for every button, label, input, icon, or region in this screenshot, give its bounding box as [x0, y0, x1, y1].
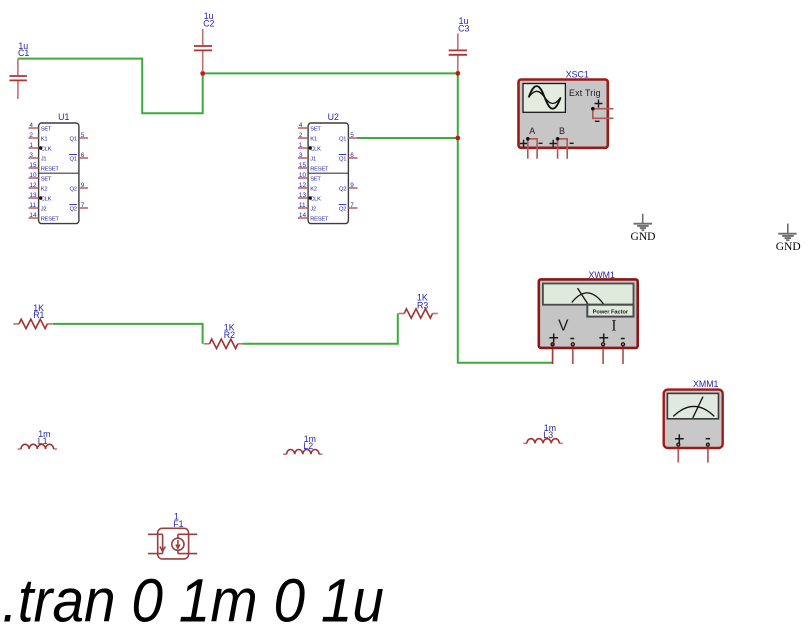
XSC1 B pin wires	[558, 139, 568, 159]
L3 coil body	[527, 439, 560, 444]
wire C3 junction down to XWM1 V+ pin	[458, 73, 553, 363]
XSC1 trig pin wires	[593, 109, 614, 119]
XSC1 A pin wires	[528, 139, 537, 159]
XWM1 display	[543, 284, 634, 305]
svg-text:10: 10	[29, 172, 37, 179]
R1 zigzag body	[19, 319, 47, 328]
svg-text:Power Factor: Power Factor	[593, 309, 629, 315]
XMM1 plus terminal	[677, 443, 680, 446]
XMM1 plus mark	[675, 434, 684, 443]
svg-text:1: 1	[299, 142, 303, 149]
svg-text:SET: SET	[41, 176, 52, 182]
multimeter XMM1	[664, 379, 723, 463]
F1 body box	[158, 528, 189, 559]
ground GND2	[776, 224, 801, 253]
svg-text:7: 7	[350, 202, 354, 209]
XWM1 V plus mark	[549, 334, 558, 343]
U2 pin stubs	[298, 128, 358, 218]
svg-text:13: 13	[29, 192, 37, 199]
svg-text:SET: SET	[41, 126, 52, 132]
U2 body	[308, 123, 348, 224]
C3 plates	[449, 50, 467, 54]
XMM1 meter needle	[693, 397, 703, 418]
XMM1 display	[667, 393, 718, 418]
svg-text:15: 15	[299, 162, 307, 169]
svg-text:L2: L2	[303, 441, 313, 451]
F1 control branch with arrow	[162, 534, 164, 553]
svg-text:3: 3	[29, 152, 33, 159]
XMM1 minus mark	[706, 438, 710, 440]
svg-text:2: 2	[299, 132, 303, 139]
svg-text:11: 11	[29, 202, 36, 209]
GND1 stem	[642, 214, 644, 223]
XSC1 screen sine trace outer	[529, 86, 561, 109]
svg-text:U2: U2	[328, 112, 339, 122]
svg-text:12: 12	[299, 182, 307, 189]
svg-text:Q1: Q1	[70, 136, 77, 142]
svg-text:GND: GND	[776, 241, 801, 253]
svg-text:U1: U1	[58, 112, 69, 122]
svg-text:J1: J1	[310, 156, 316, 162]
wire R1 right to R2 left	[53, 324, 203, 344]
svg-text:Q2: Q2	[70, 186, 77, 192]
XMM1 meter arc	[673, 406, 714, 416]
XSC1 body	[519, 80, 608, 148]
C1 leads	[17, 59, 19, 99]
svg-text:11: 11	[299, 202, 306, 209]
svg-text:4: 4	[29, 122, 33, 129]
wire C2 junction to C3 junction	[203, 72, 458, 74]
R3 right lead	[433, 313, 438, 315]
svg-text:R2: R2	[224, 330, 235, 340]
svg-text:12: 12	[29, 182, 37, 189]
svg-text:R1: R1	[33, 310, 44, 320]
svg-text:J1: J1	[41, 156, 47, 162]
U2 section divider	[308, 172, 348, 174]
XSC1 screen sine trace inner	[529, 91, 561, 103]
svg-text:K1: K1	[41, 136, 48, 142]
R2 left lead	[204, 343, 210, 345]
R2 right lead	[238, 343, 243, 345]
XSC1 A terminal dot	[526, 137, 530, 141]
svg-text:RESET: RESET	[41, 216, 60, 222]
svg-text:Q2: Q2	[339, 186, 346, 192]
XSC1 screen	[523, 84, 565, 113]
svg-text:V: V	[558, 318, 569, 335]
svg-text:C1: C1	[18, 48, 29, 58]
GND2 stem	[787, 224, 789, 234]
capacitor C1	[9, 41, 29, 99]
U1 body	[39, 123, 79, 224]
XWM1 unconnected pins	[573, 349, 623, 364]
node junction U2 Q1 net	[455, 136, 460, 141]
capacitor C2	[194, 11, 215, 71]
GND1 bars	[634, 224, 653, 231]
R3 left lead	[398, 313, 404, 315]
L1 coil body	[21, 444, 54, 449]
XWM1 I- terminal	[621, 343, 624, 346]
wire C1 top to C2 bottom junction	[18, 59, 203, 114]
svg-text:SET: SET	[310, 176, 321, 182]
svg-text:F1: F1	[173, 519, 183, 529]
svg-text:.tran 0 1m 0 1u: .tran 0 1m 0 1u	[2, 566, 384, 634]
svg-text:5: 5	[81, 132, 85, 139]
XSC1 A minus mark	[539, 142, 543, 144]
svg-text:5: 5	[350, 132, 354, 139]
R3 zigzag body	[404, 309, 432, 318]
svg-text:J2: J2	[310, 206, 316, 212]
XSC1 trig terminal dot	[591, 107, 595, 111]
wattmeter XWM1	[539, 270, 638, 364]
svg-text:2: 2	[29, 132, 33, 139]
oscilloscope XSC1	[519, 69, 614, 158]
L1 leads	[18, 448, 58, 450]
svg-text:Q2: Q2	[70, 206, 77, 212]
XWM1 meter arc	[572, 293, 604, 304]
svg-text:13: 13	[299, 192, 307, 199]
capacitor C3	[449, 16, 470, 71]
XSC1 B minus mark	[570, 142, 574, 144]
inductor L1	[18, 429, 58, 449]
svg-text:L1: L1	[38, 436, 48, 446]
svg-text:CLK: CLK	[310, 146, 321, 152]
current-controlled current source F1	[148, 528, 197, 559]
XWM1 meter needle	[578, 288, 589, 305]
U1 Q-bar overlines	[69, 154, 77, 156]
R1 right lead	[47, 323, 52, 325]
svg-text:RESET: RESET	[41, 166, 60, 172]
R2 zigzag body	[210, 339, 238, 348]
svg-text:CLK: CLK	[41, 196, 52, 202]
wire U2 Q1 output to vertical net	[357, 137, 458, 139]
U2 CLK input dots	[309, 146, 312, 149]
svg-text:R3: R3	[417, 301, 428, 311]
XSC1 trig plus mark	[595, 100, 603, 108]
svg-text:15: 15	[29, 162, 37, 169]
XWM1 V+ terminal	[551, 343, 554, 346]
svg-text:3: 3	[299, 152, 303, 159]
F1 left input leads	[148, 534, 163, 553]
XSC1 A plus mark	[520, 140, 527, 147]
U2 Q-bar overlines	[339, 154, 347, 156]
svg-text:Q1: Q1	[339, 136, 346, 142]
svg-text:9: 9	[81, 182, 85, 189]
C1 plates	[9, 76, 27, 80]
F1 source circle	[172, 538, 184, 550]
L3 leads	[523, 442, 563, 444]
svg-text:CLK: CLK	[41, 146, 52, 152]
XMM1 body	[664, 390, 723, 448]
svg-text:Q1: Q1	[339, 156, 346, 162]
XWM1 I+ terminal	[602, 343, 605, 346]
dual JK flip-flop U2	[298, 112, 358, 224]
XWM1 body	[539, 279, 638, 348]
U1 CLK input dots	[39, 146, 42, 149]
svg-text:14: 14	[29, 212, 37, 219]
svg-text:SET: SET	[310, 126, 321, 132]
svg-text:K2: K2	[41, 186, 48, 192]
node junction at C3	[455, 71, 460, 76]
svg-text:CLK: CLK	[310, 196, 321, 202]
svg-text:7: 7	[81, 202, 85, 209]
svg-text:XMM1: XMM1	[693, 379, 719, 389]
svg-text:L3: L3	[543, 430, 553, 440]
L2 leads	[283, 453, 323, 455]
svg-text:GND: GND	[631, 231, 656, 243]
XWM1 I plus mark	[599, 334, 608, 343]
C2 plates	[194, 46, 212, 50]
svg-text:4: 4	[299, 122, 303, 129]
svg-text:Q1: Q1	[70, 156, 77, 162]
svg-text:J2: J2	[41, 206, 47, 212]
inductor L3	[523, 423, 563, 443]
svg-text:1: 1	[29, 142, 33, 149]
F1 source arrow	[177, 534, 179, 553]
svg-text:K2: K2	[310, 186, 317, 192]
L2 coil body	[287, 449, 320, 454]
XSC1 trig minus mark	[595, 120, 600, 122]
XWM1 power factor box	[587, 305, 633, 317]
C2 leads	[202, 29, 204, 72]
XWM1 V+ pin	[552, 349, 554, 364]
svg-text:C3: C3	[458, 23, 469, 33]
U1 section divider	[39, 172, 79, 174]
U1 pin stubs	[29, 128, 89, 218]
XWM1 V minus mark	[570, 338, 574, 340]
wire R2 right to R3 left	[242, 314, 397, 344]
svg-text:C2: C2	[203, 18, 214, 28]
svg-text:RESET: RESET	[310, 166, 329, 172]
svg-text:9: 9	[350, 182, 354, 189]
svg-text:B: B	[559, 126, 565, 136]
svg-text:Ext Trig: Ext Trig	[569, 88, 601, 98]
GND2 bars	[778, 234, 796, 241]
svg-text:XSC1: XSC1	[566, 69, 589, 79]
XSC1 B terminal dot	[556, 137, 560, 141]
F1 right output leads	[178, 534, 197, 553]
resistor R1	[13, 303, 52, 329]
R1 left lead	[13, 323, 19, 325]
XMM1 pins	[678, 449, 708, 463]
svg-text:RESET: RESET	[310, 216, 329, 222]
svg-text:I: I	[611, 318, 616, 335]
resistor R2	[204, 323, 243, 349]
C3 leads	[457, 33, 459, 71]
resistor R3	[398, 292, 437, 318]
XMM1 minus terminal	[706, 443, 709, 446]
svg-text:10: 10	[299, 172, 307, 179]
svg-text:6: 6	[350, 152, 354, 159]
inductor L2	[283, 434, 323, 454]
dual JK flip-flop U1	[29, 112, 89, 224]
XWM1 I minus mark	[621, 338, 625, 340]
ground GND1	[631, 214, 656, 243]
XWM1 V- terminal	[571, 343, 574, 346]
svg-text:A: A	[529, 126, 535, 136]
svg-text:K1: K1	[310, 136, 317, 142]
svg-text:14: 14	[299, 212, 307, 219]
svg-text:Q2: Q2	[339, 206, 346, 212]
svg-text:6: 6	[81, 152, 85, 159]
XSC1 B plus mark	[550, 140, 557, 147]
node junction at C2	[200, 71, 205, 76]
